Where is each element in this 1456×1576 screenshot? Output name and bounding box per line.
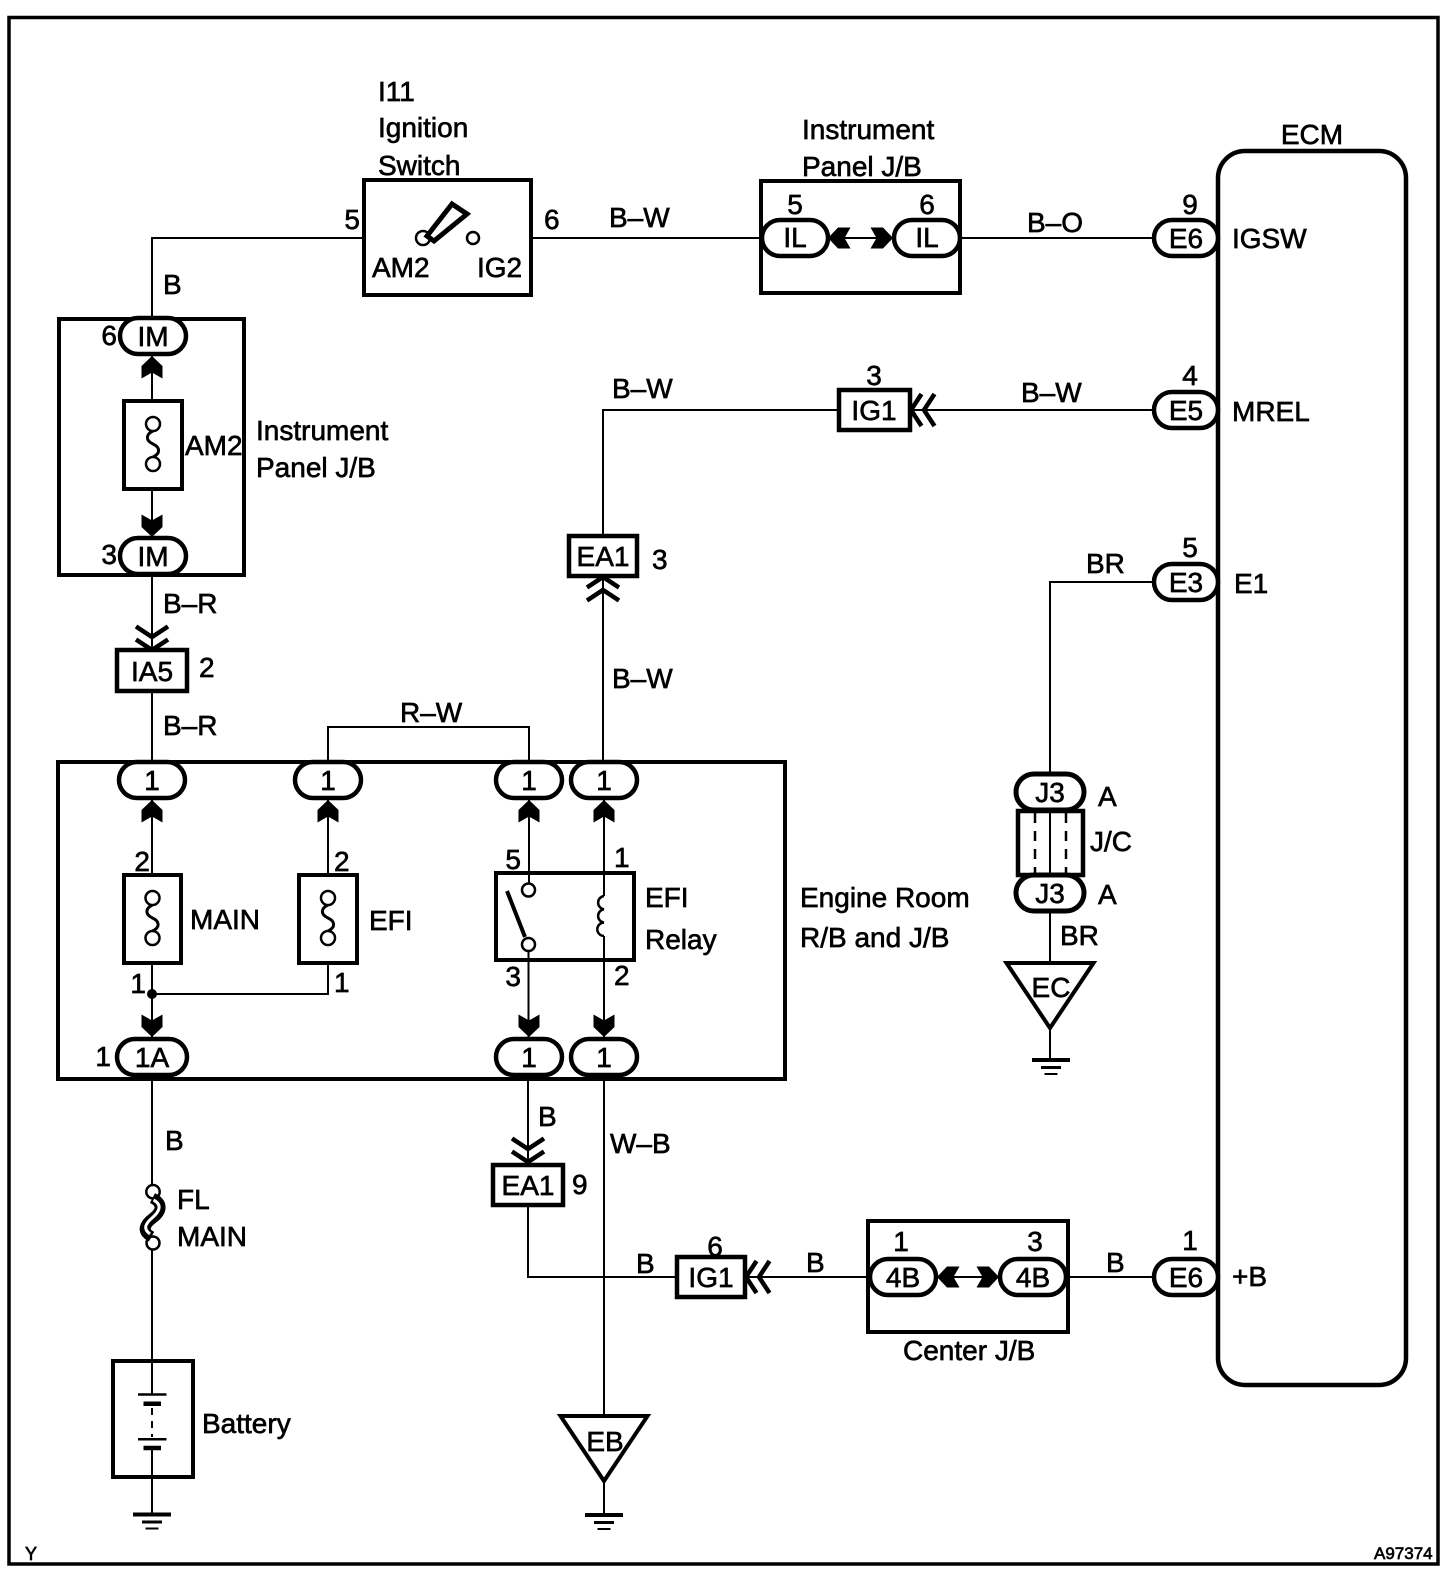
svg-text:1: 1 bbox=[521, 1042, 537, 1073]
connector chevrons EA1 bbox=[512, 1139, 544, 1163]
arrow left bbox=[828, 228, 851, 249]
svg-text:EFI: EFI bbox=[645, 882, 689, 913]
svg-text:Panel J/B: Panel J/B bbox=[802, 151, 922, 182]
wire fuse MAIN to 1A bbox=[151, 963, 153, 1039]
wire EFI fuse to MAIN branch bbox=[152, 963, 328, 994]
wire relay pin 2 bbox=[603, 936, 605, 1039]
wire IM to fuse AM2 bbox=[151, 354, 153, 401]
wire to fuse EFI bbox=[327, 798, 329, 875]
arrow down bbox=[142, 515, 163, 538]
wire R-W: EFI fuse to relay pin 5 bbox=[328, 727, 529, 763]
relay coil bbox=[597, 896, 604, 936]
wire W-B: relay coil out to EB ground bbox=[603, 1075, 605, 1416]
wire to ground bbox=[1049, 1028, 1051, 1058]
relay switch arm bbox=[507, 891, 525, 937]
fuse AM2 box bbox=[124, 401, 182, 489]
connector J3 oval (upper) bbox=[1016, 774, 1084, 810]
arrow left bbox=[937, 1267, 960, 1288]
svg-text:1: 1 bbox=[521, 765, 537, 796]
svg-text:4B: 4B bbox=[886, 1262, 920, 1293]
svg-text:1: 1 bbox=[1182, 1225, 1198, 1256]
wire B-W: ECM MREL to IG1 connector bbox=[910, 409, 1154, 411]
svg-text:+B: +B bbox=[1232, 1261, 1267, 1292]
connector oval 1 (EFI fuse feed) bbox=[295, 762, 361, 798]
wire B: relay switch out to EA1 bbox=[527, 1075, 529, 1165]
battery box bbox=[113, 1361, 193, 1477]
wire relay pin 1 bbox=[603, 798, 605, 896]
svg-text:3: 3 bbox=[652, 544, 668, 575]
svg-text:FL: FL bbox=[177, 1184, 210, 1215]
wire between IL connectors bbox=[827, 237, 894, 239]
svg-text:IG1: IG1 bbox=[688, 1262, 733, 1293]
svg-text:E6: E6 bbox=[1169, 223, 1203, 254]
svg-text:2: 2 bbox=[199, 652, 215, 683]
wire B-R: IA5 to engine room J/B bbox=[151, 691, 153, 763]
svg-text:1: 1 bbox=[893, 1226, 909, 1257]
wire to fuse MAIN bbox=[151, 798, 153, 875]
svg-text:5: 5 bbox=[505, 844, 521, 875]
arrow down bbox=[594, 1015, 615, 1038]
svg-text:IL: IL bbox=[915, 222, 938, 253]
connector chevrons EA1 bbox=[587, 577, 619, 601]
wire B-W: switch IG2 to instrument panel J/B bbox=[531, 237, 763, 239]
wire relay pin 5 bbox=[528, 798, 530, 884]
arrow up bbox=[594, 800, 615, 823]
ECM box bbox=[1218, 151, 1406, 1385]
svg-text:IA5: IA5 bbox=[131, 656, 173, 687]
svg-text:3: 3 bbox=[505, 961, 521, 992]
instrument panel J/B box (top) bbox=[761, 181, 960, 293]
arrow up bbox=[142, 800, 163, 823]
wire to ground bbox=[603, 1481, 605, 1513]
svg-text:6: 6 bbox=[707, 1231, 723, 1262]
arrow down bbox=[142, 1015, 163, 1038]
svg-text:EFI: EFI bbox=[369, 905, 413, 936]
svg-text:Engine Room: Engine Room bbox=[800, 882, 970, 913]
connector EA1 box bbox=[493, 1165, 563, 1205]
svg-text:3: 3 bbox=[866, 360, 882, 391]
wire to battery bbox=[151, 1250, 153, 1395]
arrow up bbox=[519, 800, 540, 823]
svg-text:E3: E3 bbox=[1169, 567, 1203, 598]
svg-text:I11: I11 bbox=[378, 76, 415, 107]
svg-text:6: 6 bbox=[919, 189, 935, 220]
svg-text:2: 2 bbox=[614, 960, 630, 991]
svg-text:Relay: Relay bbox=[645, 924, 717, 955]
svg-text:1A: 1A bbox=[135, 1042, 170, 1073]
svg-text:3: 3 bbox=[101, 539, 117, 570]
svg-text:1: 1 bbox=[614, 842, 630, 873]
svg-text:1: 1 bbox=[95, 1041, 111, 1072]
ground point EC triangle bbox=[1007, 963, 1094, 1028]
svg-text:Switch: Switch bbox=[378, 150, 460, 181]
svg-text:EB: EB bbox=[586, 1426, 623, 1457]
svg-text:BR: BR bbox=[1060, 920, 1099, 951]
junction dot bbox=[147, 989, 157, 999]
switch lever bbox=[427, 204, 467, 241]
arrow up bbox=[318, 800, 339, 823]
connector 4B pin 1 oval bbox=[870, 1259, 936, 1295]
svg-text:B: B bbox=[1106, 1247, 1125, 1278]
svg-text:EA1: EA1 bbox=[502, 1170, 555, 1201]
svg-text:5: 5 bbox=[344, 204, 360, 235]
svg-text:1: 1 bbox=[320, 765, 336, 796]
svg-text:R/B and J/B: R/B and J/B bbox=[800, 922, 949, 953]
ground battery bbox=[133, 1515, 171, 1529]
svg-text:B–W: B–W bbox=[612, 373, 673, 404]
junction connector J/C box bbox=[1018, 811, 1083, 875]
svg-text:MAIN: MAIN bbox=[190, 904, 260, 935]
svg-text:R–W: R–W bbox=[400, 697, 463, 728]
svg-text:5: 5 bbox=[787, 189, 803, 220]
engine room R/B and J/B box bbox=[58, 762, 785, 1079]
relay contact top bbox=[522, 884, 535, 897]
connector EA1 box bbox=[569, 536, 637, 576]
connector IG1 box bbox=[839, 390, 910, 430]
wire B-R: IM to IA5 bbox=[151, 574, 153, 650]
connector oval 1 (relay switch out) bbox=[496, 1039, 562, 1075]
svg-text:Battery: Battery bbox=[202, 1408, 291, 1439]
svg-text:MREL: MREL bbox=[1232, 396, 1310, 427]
svg-text:IM: IM bbox=[137, 321, 168, 352]
connector oval 1 (relay coil out) bbox=[571, 1039, 637, 1075]
fuse MAIN box bbox=[124, 875, 181, 963]
svg-text:5: 5 bbox=[1182, 532, 1198, 563]
svg-text:A: A bbox=[1098, 879, 1117, 910]
svg-text:Instrument: Instrument bbox=[802, 114, 934, 145]
ignition switch I11 box bbox=[364, 180, 531, 295]
connector IL pin 6 oval bbox=[894, 220, 960, 256]
fusible link FL MAIN bbox=[146, 1185, 159, 1198]
wire B: EA1 to IG1 bbox=[528, 1205, 677, 1277]
fuse MAIN element bbox=[146, 891, 160, 945]
svg-text:A97374: A97374 bbox=[1374, 1544, 1433, 1563]
svg-text:Y: Y bbox=[25, 1544, 37, 1564]
svg-text:J3: J3 bbox=[1035, 777, 1065, 808]
connector E6 pin 9 oval bbox=[1154, 220, 1218, 256]
wire relay pin 3 bbox=[528, 951, 530, 1039]
contact IG2 bbox=[467, 232, 479, 244]
connector E3 pin 5 oval bbox=[1154, 564, 1218, 600]
arrow right bbox=[977, 1267, 1000, 1288]
connector IL pin 5 oval bbox=[762, 220, 828, 256]
connector chevrons IG1 bbox=[911, 394, 935, 426]
svg-text:IL: IL bbox=[783, 222, 806, 253]
svg-text:IG1: IG1 bbox=[851, 395, 896, 426]
svg-text:J/C: J/C bbox=[1090, 826, 1132, 857]
svg-text:J3: J3 bbox=[1035, 878, 1065, 909]
svg-text:B: B bbox=[163, 269, 182, 300]
ground point EB triangle bbox=[561, 1416, 648, 1481]
connector oval 1A bbox=[117, 1039, 187, 1075]
svg-text:E5: E5 bbox=[1169, 395, 1203, 426]
svg-text:B–W: B–W bbox=[609, 202, 670, 233]
connector IM pin 3 oval bbox=[120, 538, 186, 574]
arrow down bbox=[519, 1015, 540, 1038]
svg-text:Center J/B: Center J/B bbox=[903, 1335, 1035, 1366]
connector oval 1 (MAIN feed) bbox=[119, 762, 185, 798]
connector 4B pin 3 oval bbox=[1000, 1259, 1066, 1295]
wire BR: ECM E1 to J3 bbox=[1050, 582, 1154, 774]
svg-text:1: 1 bbox=[334, 967, 350, 998]
svg-text:B–R: B–R bbox=[163, 588, 217, 619]
ground EB bbox=[585, 1515, 623, 1529]
svg-text:6: 6 bbox=[544, 204, 560, 235]
fuse EFI element bbox=[321, 891, 335, 945]
wire B: center J/B to ECM +B bbox=[1066, 1276, 1154, 1278]
svg-text:AM2: AM2 bbox=[185, 430, 243, 461]
connector IA5 box bbox=[117, 650, 187, 691]
wire B-O: J/B to ECM IGSW bbox=[960, 237, 1154, 239]
svg-text:B–R: B–R bbox=[163, 710, 217, 741]
svg-text:E1: E1 bbox=[1234, 568, 1268, 599]
connector oval 1 (relay switch in) bbox=[496, 762, 562, 798]
svg-text:Panel J/B: Panel J/B bbox=[256, 452, 376, 483]
svg-text:AM2: AM2 bbox=[372, 252, 430, 283]
svg-text:Ignition: Ignition bbox=[378, 112, 468, 143]
arrow up bbox=[142, 356, 163, 379]
ground EC bbox=[1032, 1060, 1070, 1074]
svg-text:ECM: ECM bbox=[1281, 119, 1343, 150]
wire battery to ground bbox=[151, 1450, 153, 1513]
svg-text:9: 9 bbox=[572, 1169, 588, 1200]
svg-text:IM: IM bbox=[137, 541, 168, 572]
svg-text:1: 1 bbox=[144, 765, 160, 796]
svg-text:3: 3 bbox=[1027, 1226, 1043, 1257]
svg-text:IGSW: IGSW bbox=[1232, 223, 1307, 254]
arrow right bbox=[871, 228, 894, 249]
svg-text:B–W: B–W bbox=[1021, 377, 1082, 408]
svg-text:2: 2 bbox=[334, 846, 350, 877]
wire B: ignition switch AM2 terminal to IM connector bbox=[152, 238, 364, 319]
connector E5 pin 4 oval bbox=[1154, 392, 1218, 428]
svg-text:W–B: W–B bbox=[610, 1128, 671, 1159]
connector E6 pin 1 oval bbox=[1154, 1259, 1218, 1295]
wire B: 1A to battery bbox=[151, 1075, 153, 1185]
relay contact bottom bbox=[522, 938, 535, 951]
wire B-W: EA1 to EFI relay coil bbox=[602, 576, 604, 763]
svg-text:B: B bbox=[806, 1247, 825, 1278]
svg-text:B–O: B–O bbox=[1027, 207, 1083, 238]
connector J3 oval (lower) bbox=[1016, 875, 1084, 911]
svg-text:1: 1 bbox=[596, 1042, 612, 1073]
contact AM2 bbox=[416, 231, 430, 245]
wire between 4B connectors bbox=[936, 1276, 1000, 1278]
connector IM pin 6 oval bbox=[120, 318, 186, 354]
wire BR: J3 to EC ground bbox=[1049, 911, 1051, 963]
svg-text:B–W: B–W bbox=[612, 663, 673, 694]
svg-text:IG2: IG2 bbox=[477, 252, 522, 283]
battery plates bbox=[138, 1393, 167, 1396]
svg-text:B: B bbox=[538, 1101, 557, 1132]
instrument panel J/B box (left) bbox=[59, 319, 244, 575]
svg-text:B: B bbox=[165, 1125, 184, 1156]
svg-text:E6: E6 bbox=[1169, 1262, 1203, 1293]
svg-text:2: 2 bbox=[134, 846, 150, 877]
svg-text:9: 9 bbox=[1182, 189, 1198, 220]
connector chevrons IG1 bbox=[746, 1261, 770, 1293]
svg-text:A: A bbox=[1098, 781, 1117, 812]
relay EFI box bbox=[496, 873, 634, 960]
svg-text:EC: EC bbox=[1032, 972, 1071, 1003]
connector oval 1 (relay coil in) bbox=[571, 762, 637, 798]
svg-text:BR: BR bbox=[1086, 548, 1125, 579]
svg-text:4: 4 bbox=[1182, 360, 1198, 391]
fuse AM2 element bbox=[146, 417, 160, 471]
svg-text:EA1: EA1 bbox=[577, 541, 630, 572]
svg-text:1: 1 bbox=[130, 968, 146, 999]
connector chevrons IA5 bbox=[136, 627, 168, 651]
svg-text:4B: 4B bbox=[1016, 1262, 1050, 1293]
wire fuse AM2 to IM pin 3 bbox=[151, 489, 153, 538]
svg-text:6: 6 bbox=[101, 320, 117, 351]
svg-text:MAIN: MAIN bbox=[177, 1221, 247, 1252]
wire B: IG1 to center J/B bbox=[745, 1276, 870, 1278]
svg-text:1: 1 bbox=[596, 765, 612, 796]
svg-text:B: B bbox=[636, 1248, 655, 1279]
svg-text:Instrument: Instrument bbox=[256, 415, 388, 446]
fuse EFI box bbox=[299, 875, 357, 963]
wire B-W: IG1 to EA1 bbox=[603, 410, 839, 536]
connector IG1 box bbox=[677, 1257, 745, 1297]
center J/B box bbox=[868, 1221, 1068, 1332]
